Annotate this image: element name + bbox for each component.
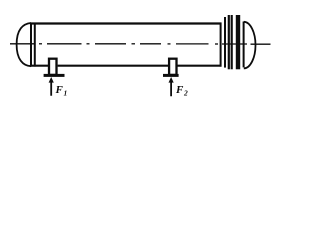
svg-text:F: F xyxy=(55,84,64,96)
centerline dash 2 xyxy=(47,43,82,45)
base plate 1 xyxy=(44,74,65,77)
centerline dot 4 xyxy=(168,43,171,45)
shell top line xyxy=(30,22,222,24)
right neck line xyxy=(224,17,226,68)
svg-text:F: F xyxy=(175,84,184,96)
centerline dot 1 xyxy=(39,43,42,45)
flange 2 line a xyxy=(236,15,238,69)
flange 1 line a xyxy=(228,15,230,69)
support box 2 xyxy=(169,59,176,75)
centerline dash 7 xyxy=(251,43,271,45)
centerline dash 5 xyxy=(176,43,209,45)
shell bottom line middle segment xyxy=(58,65,169,67)
centerline dash 4 xyxy=(140,43,161,45)
shell bottom line right segment xyxy=(177,65,222,67)
support box 1 xyxy=(49,59,57,75)
right head arc xyxy=(244,22,256,69)
arrow F1 xyxy=(49,77,54,96)
centerline dash 6 xyxy=(222,43,247,45)
centerline dash 1 xyxy=(10,43,35,45)
left head arc xyxy=(17,23,31,66)
right shell end line xyxy=(220,23,222,67)
left head tangent line 1 xyxy=(30,23,32,67)
flange 1 line b xyxy=(231,15,233,69)
left head tangent line 2 xyxy=(34,23,36,67)
svg-text:1: 1 xyxy=(64,89,68,98)
svg-text:2: 2 xyxy=(183,89,188,98)
arrow F2 xyxy=(169,77,174,96)
flange 2 line b xyxy=(238,15,240,69)
base plate 2 xyxy=(163,74,179,77)
centerline dot 2 xyxy=(87,43,90,45)
centerline dot 5 xyxy=(215,43,218,45)
centerline dash 3 xyxy=(95,43,126,45)
shell bottom line left segment xyxy=(30,65,48,67)
centerline dot 3 xyxy=(132,43,136,45)
right head tangent line xyxy=(243,22,245,68)
